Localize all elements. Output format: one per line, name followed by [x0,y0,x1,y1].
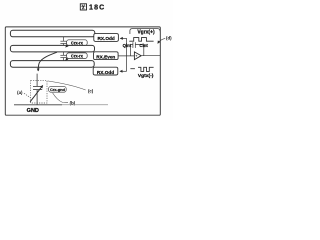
label (c) with leader [48,81,94,94]
svg-text:(c): (c) [88,88,94,93]
label Crx-rx (2) [66,53,88,60]
waveform Vgtx(-) [138,67,154,71]
op-amp integrator U1 [134,52,141,60]
waveform Vgrx(+) [129,38,153,42]
RX bar 3 [10,61,94,68]
label Crx-rx (1) [66,40,88,47]
dashed box around Crx-gnd [31,81,47,103]
svg-text:Crx-gnd: Crx-gnd [50,87,66,92]
svg-text:RX.Even: RX.Even [96,54,115,59]
capacitor Cint (feedback) [131,42,144,56]
node RX.Odd box 3 [93,67,118,75]
label Crx-gnd [49,86,67,92]
svg-text:(d): (d) [166,36,172,41]
node RX.Even box 2 [94,52,119,60]
capacitor Crx-rx (1) between bar1 and bar2 [60,37,66,46]
junction vertical wire [126,38,128,71]
label (d) with leader [158,36,172,44]
label (a) with dotted leader [17,90,30,98]
output wire [141,55,160,57]
label (b) with leader [53,93,76,106]
node RX.Odd box 1 [94,34,119,42]
capacitor Crx-gnd (variable) [33,86,42,89]
svg-text:RX.Odd: RX.Odd [98,36,115,41]
svg-text:Vgtx(-): Vgtx(-) [138,73,154,79]
svg-text:GND: GND [27,108,39,114]
svg-text:Crx-rx: Crx-rx [71,54,84,59]
RX bar 1 [10,30,94,37]
svg-text:Crx-rx: Crx-rx [71,40,84,45]
svg-text:Cint: Cint [139,43,148,48]
wire box3 to junction (arrow into box3) [120,70,127,72]
dash before bottom waveform [130,68,135,70]
inner top-right double line [130,29,160,34]
variable arrow across cap [30,85,43,101]
ground rail [14,104,62,106]
svg-text:18C: 18C [89,5,105,12]
svg-text:(a): (a) [17,90,23,95]
RX bar 2 [10,45,94,52]
title 図18C [80,4,105,12]
curved arrow from bar2 to ground branch [38,52,57,71]
wire to Crx-gnd cap [36,74,38,87]
wire box2 to amp input [118,55,134,57]
svg-text:Vgrx(+): Vgrx(+) [137,29,155,35]
svg-text:RX.Odd: RX.Odd [97,70,114,75]
panel border [5,27,160,115]
wire box1 to junction (arrow into box1) [120,37,126,39]
wire cap to ground rail [36,90,38,105]
capacitor Crx-rx (2) between bar2 and bar3 [60,52,66,61]
